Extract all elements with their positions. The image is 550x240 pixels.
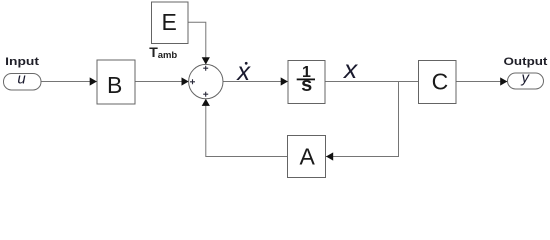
svg-text:s: s <box>301 74 312 96</box>
svg-text:x: x <box>342 54 358 84</box>
svg-text:B: B <box>107 72 122 98</box>
svg-text:Input: Input <box>5 56 39 68</box>
svg-text:y: y <box>520 70 530 87</box>
svg-text:Output: Output <box>504 56 548 68</box>
svg-text:amb: amb <box>158 50 178 61</box>
svg-text:x: x <box>235 56 251 86</box>
svg-text:A: A <box>300 143 316 169</box>
svg-text:E: E <box>162 9 177 35</box>
svg-text:u: u <box>17 71 26 88</box>
svg-text:C: C <box>432 69 449 95</box>
